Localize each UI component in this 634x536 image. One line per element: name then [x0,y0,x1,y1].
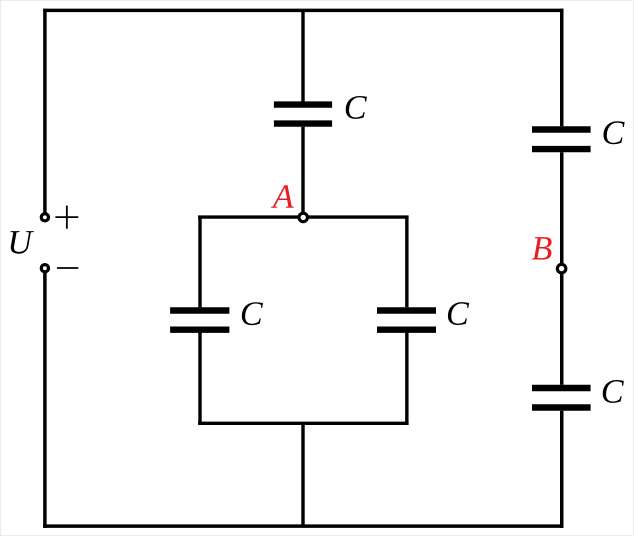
wire bottom center branch [301,423,304,526]
capacitor C3 inner-left plates [170,311,229,330]
wire middle branch lower (capacitor to node A) [301,127,304,218]
wire inner rect right edge upper [405,216,408,308]
wire right vertical upper (top corner to capacitor) [560,9,564,127]
capacitor C4 inner-right plates [377,311,436,330]
wire bottom horizontal [43,524,563,528]
wire top horizontal [43,9,563,13]
wire inner rect right edge lower [405,333,408,425]
node B label [532,237,552,259]
wire inner rect top edge [198,215,409,218]
wire inner rect left edge lower [198,333,201,425]
wire inner rect bottom edge [198,422,409,425]
capacitor C2 right-top plates [532,130,591,150]
wire inner rect left edge upper [198,216,201,308]
wire middle branch upper (top wire to capacitor) [301,10,304,101]
terminal - circle [41,265,48,272]
node A label [271,185,294,208]
wire right vertical lower (capacitor to bottom corner) [560,411,564,528]
terminal + circle [41,214,48,221]
node B terminal circle [557,264,566,273]
capacitor C1 middle-top plates [274,105,332,124]
value label C (middle-top) [346,96,367,119]
value label C (inner-right) [448,302,469,325]
value label C (inner-left) [242,302,263,325]
value label C (right-top) [603,121,624,144]
node A terminal circle [299,213,308,222]
value label C (right-bottom) [603,380,624,403]
source label U [11,231,34,254]
wire right vertical middle (capacitor to node B) [560,152,564,268]
capacitor C5 right-bottom plates [532,388,591,408]
wire left vertical upper (top corner to + terminal) [43,9,47,218]
wire left vertical lower (- terminal to bottom corner) [43,268,47,528]
minus sign [57,267,78,269]
plus sign [55,206,78,229]
wire right vertical (node B to lower capacitor) [560,269,564,385]
